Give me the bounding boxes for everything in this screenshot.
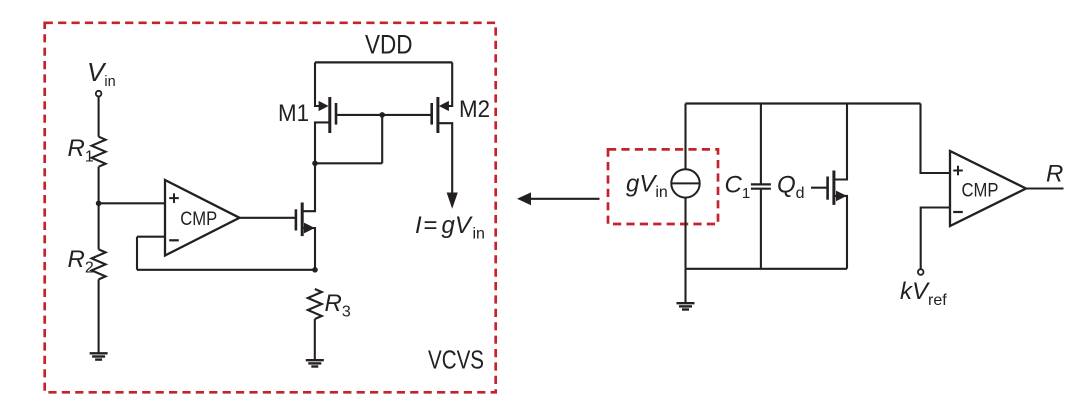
arrow block link (522, 198, 600, 200)
wire node A to R2 (98, 203, 100, 249)
wire feedback left vertical (136, 237, 138, 270)
transistor Q1 gate bar (295, 209, 298, 230)
capacitor C1 bottom lead (760, 189, 762, 269)
svg-text:C1: C1 (725, 172, 751, 203)
arrow M2 drain current (447, 193, 458, 209)
wire rail to CMP plus input (921, 104, 951, 174)
arrow Q1 source (304, 223, 315, 234)
arrow M2 source (439, 101, 449, 111)
svg-text:R2: R2 (68, 246, 94, 277)
resistor R2 (92, 249, 106, 279)
svg-text:R3: R3 (325, 290, 351, 321)
wire gate tie horizontal (315, 162, 382, 164)
svg-text:VCVS: VCVS (428, 345, 484, 375)
current source gVin circle (671, 169, 699, 197)
wire CMP output to Q1 gate (240, 217, 296, 219)
wire bottom rail (686, 268, 848, 270)
node D junction mirror gates (379, 112, 385, 118)
svg-text:R1: R1 (68, 135, 94, 166)
arrow M1 source (319, 101, 329, 111)
wire top rail (686, 102, 921, 104)
transistor M2 gate bar (430, 103, 433, 125)
wire Qd gate (811, 187, 828, 189)
transistor M1 channel bar (328, 97, 331, 133)
capacitor C1 plates (751, 184, 771, 188)
wire Qd source (835, 196, 847, 269)
resistor R1 (92, 137, 106, 167)
wire R2 to ground (98, 279, 100, 353)
svg-text:I=gVin: I=gVin (415, 212, 485, 243)
resistor R3 (308, 289, 322, 319)
svg-text:Vin: Vin (87, 57, 116, 90)
wire source top lead (684, 104, 686, 170)
op-amp U1 CMP (165, 180, 240, 256)
svg-text:gVin: gVin (626, 171, 668, 202)
transistor Qd channel bar (832, 171, 835, 205)
op-amp U2 plus marker (953, 166, 963, 176)
wire M2 drain (438, 123, 452, 193)
wire gate line M1 to M2 (336, 114, 432, 116)
wire Q1 source (304, 228, 316, 270)
op-amp U1 minus marker (169, 239, 179, 241)
wire CMP minus input (921, 208, 950, 270)
node Vin terminal (96, 91, 102, 97)
wire Vin to R1 (98, 97, 100, 137)
node A junction R1-R2 (96, 201, 102, 207)
svg-text:Qd: Qd (777, 172, 805, 203)
wire M1 drain (315, 122, 330, 163)
wire Q1 drain (304, 163, 316, 211)
node kVref terminal (918, 269, 924, 275)
wire M2 source (448, 62, 452, 106)
current source gVin bar (671, 182, 699, 184)
capacitor C1 top lead (760, 104, 762, 185)
wire feedback bottom (137, 269, 315, 271)
transistor M2 channel bar (436, 97, 439, 133)
svg-text:VDD: VDD (365, 30, 413, 60)
svg-text:kVref: kVref (900, 278, 947, 309)
wire CMP minus input (137, 236, 165, 238)
svg-text:M1: M1 (278, 100, 309, 127)
svg-text:CMP: CMP (180, 208, 217, 230)
wire node A to CMP plus input (99, 202, 165, 204)
wire source bottom lead (684, 198, 686, 269)
svg-text:R: R (1046, 161, 1063, 188)
svg-text:M2: M2 (459, 96, 490, 123)
wire R1 to node (98, 167, 100, 204)
ground G1 (90, 353, 108, 359)
VCVS dashed box (45, 23, 496, 393)
wire gate tie vertical (381, 115, 383, 163)
wire VDD rail (315, 61, 452, 63)
op-amp U1 plus marker (169, 193, 179, 203)
node B junction source-R3 (312, 267, 318, 273)
node C junction M1 drain (312, 161, 318, 167)
wire M1 source (315, 62, 319, 106)
arrowhead block link (517, 192, 531, 205)
svg-text:CMP: CMP (962, 180, 999, 202)
ground G3 (677, 303, 695, 309)
wire CMP output (1026, 187, 1064, 189)
transistor M1 gate bar (335, 103, 338, 125)
ground G2 (306, 360, 324, 366)
wire Qd drain (835, 104, 847, 180)
transistor Q1 channel bar (301, 203, 304, 237)
gVin dashed box (608, 149, 718, 224)
op-amp U2 CMP (950, 151, 1026, 226)
arrow Qd source (836, 191, 847, 202)
transistor Qd gate bar (826, 177, 829, 200)
wire ground stub (684, 269, 686, 303)
wire R3 to ground (314, 319, 316, 360)
op-amp U2 minus marker (953, 211, 963, 213)
